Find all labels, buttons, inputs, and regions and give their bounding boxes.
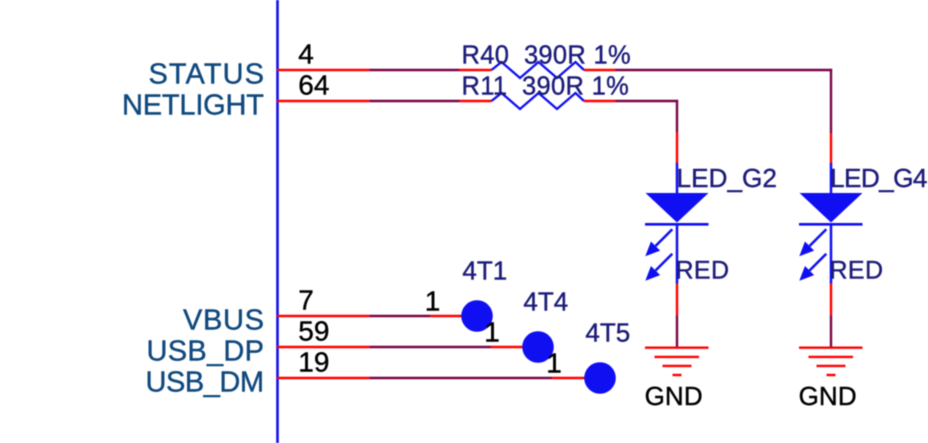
ground symbol GND (left) [645,348,709,375]
LED_G2 cathode bar [645,223,709,226]
wire LED_G4 to GND [830,316,832,348]
wire R40 to LED_G4 (horizontal) [616,69,833,71]
svg-text:GND: GND [799,381,857,411]
svg-text:RED: RED [676,256,730,284]
testpoint 4T1 pin 1 [430,315,463,317]
svg-text:LED_G4: LED_G4 [830,163,928,193]
svg-text:RED: RED [830,256,884,284]
LED_G4 cathode bar [799,223,863,226]
LED_G4 triangle [800,193,863,223]
testpoint 4T4 [522,331,554,363]
LED_G2 emission arrow 2 [656,254,673,271]
LED LED_G4 [799,163,928,347]
testpoint 4T1 [461,300,493,332]
svg-text:4T4: 4T4 [523,286,568,316]
resistor R11 pin 1 [460,100,492,102]
wire R11 to LED_G2 (horizontal) [616,100,679,102]
ground symbol GND (right) [799,348,863,375]
svg-text:19: 19 [298,347,329,378]
LED_G4 emission arrow 2 [810,254,827,271]
wire STATUS net to R40 [370,69,460,71]
resistor R40 pin 2 [584,69,616,71]
svg-text:USB_DP: USB_DP [147,336,265,368]
svg-text:NETLIGHT: NETLIGHT [122,90,264,122]
LED_G2 bottom lead [676,224,679,284]
svg-text:64: 64 [298,70,329,101]
svg-text:LED_G2: LED_G2 [677,163,777,193]
svg-text:1: 1 [546,348,562,379]
wire USB_DM net to 4T5 [370,377,553,379]
wire USB_DP net to 4T4 [370,346,492,348]
svg-text:4T5: 4T5 [585,317,630,347]
pin USB_DP (module pin 59) [277,346,370,348]
svg-text:7: 7 [298,285,314,316]
svg-text:4T1: 4T1 [462,255,507,285]
LED_G4 bottom lead [830,224,833,284]
svg-text:4: 4 [298,39,314,70]
resistor R11 [492,93,585,109]
LED_G4 anode pin [830,133,832,164]
svg-text:USB_DM: USB_DM [146,367,265,399]
svg-text:STATUS: STATUS [149,59,265,91]
LED LED_G2 [645,163,777,347]
LED_G2 anode pin [676,132,678,164]
pin VBUS (module pin 7) [277,315,370,317]
LED_G4 top lead [830,163,833,194]
LED_G2 triangle [646,193,709,223]
resistor R11 pin 2 [584,100,616,102]
wire LED_G2 to GND [676,316,678,348]
testpoint 4T5 pin 1 [552,377,586,379]
wire NETLIGHT net to R11 [370,100,460,102]
wire R40 to LED_G4 (vertical) [830,69,832,133]
svg-text:59: 59 [298,316,329,347]
LED_G2 top lead [676,163,679,194]
svg-text:1: 1 [425,286,441,317]
module boundary line [276,0,279,443]
pin USB_DM (module pin 19) [277,377,370,379]
testpoint 4T5 [584,362,616,394]
wire R11 to LED_G2 (vertical) [676,100,678,132]
svg-text:R11 390R 1%: R11 390R 1% [462,73,630,101]
svg-text:R40 390R 1%: R40 390R 1% [462,42,631,70]
svg-text:VBUS: VBUS [183,305,264,337]
wire VBUS net to 4T1 [370,315,431,317]
resistor R40 [492,62,585,78]
LED_G2 cathode pin [676,284,678,316]
LED_G4 emission arrow 1 [810,229,827,246]
svg-text:GND: GND [645,381,703,411]
pin NETLIGHT (module pin 64) [277,100,370,102]
LED_G4 cathode pin [830,284,832,316]
testpoint 4T4 pin 1 [491,346,524,348]
svg-text:1: 1 [484,317,500,348]
pin STATUS (module pin 4) [277,69,370,71]
resistor R40 pin 1 [460,69,492,71]
LED_G2 emission arrow 1 [656,229,673,246]
